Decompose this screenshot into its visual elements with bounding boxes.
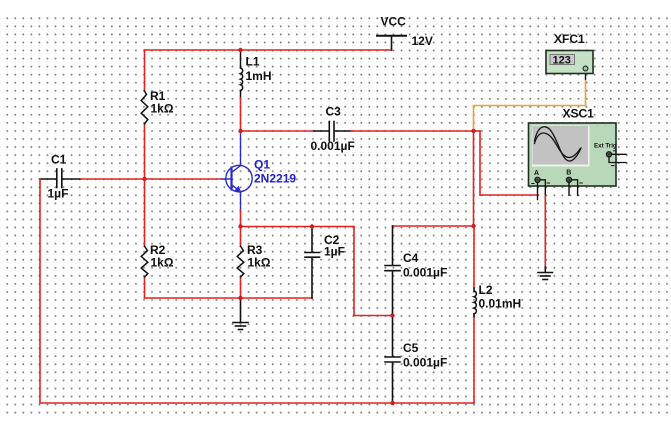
wire C4 top horizontal <box>393 225 475 227</box>
wire R3 column <box>240 227 242 299</box>
VCC power symbol <box>377 36 406 50</box>
svg-text:1kΩ: 1kΩ <box>151 256 174 270</box>
frequency counter XFC1 <box>546 51 593 74</box>
svg-text:Q1: Q1 <box>254 157 270 171</box>
wire base junction to Q1 <box>145 178 223 180</box>
resistor R2 <box>141 246 148 277</box>
svg-text:1kΩ: 1kΩ <box>151 102 174 116</box>
svg-text:L2: L2 <box>479 283 493 297</box>
wire emitter horizontal rail <box>241 227 393 316</box>
svg-text:XSC1: XSC1 <box>563 106 595 120</box>
oscilloscope XSC1 <box>529 123 627 200</box>
wire C1 to base junction <box>81 178 145 180</box>
wire collector junction to scope A <box>474 131 539 195</box>
svg-text:C1: C1 <box>51 152 67 166</box>
wire Q1 emitter down <box>240 210 242 227</box>
capacitor C3 <box>314 122 351 142</box>
svg-text:VCC: VCC <box>381 14 407 28</box>
svg-text:0.001µF: 0.001µF <box>311 139 355 153</box>
wire left loop C1 down and bottom long <box>40 179 474 403</box>
svg-text:B: B <box>566 170 571 177</box>
resistor R1 <box>141 91 148 124</box>
svg-text:12V: 12V <box>412 34 433 48</box>
svg-text:C5: C5 <box>403 341 419 355</box>
wire mid horizontal collector rail <box>241 130 315 132</box>
capacitor C1 <box>40 169 81 188</box>
svg-text:XFC1: XFC1 <box>554 32 585 46</box>
capacitor C2 <box>305 227 320 298</box>
svg-text:C4: C4 <box>403 251 419 265</box>
wire top horizontal VCC rail <box>145 49 392 51</box>
ground (R3 bottom) <box>233 298 248 330</box>
XFC1 terminal stub <box>585 71 587 79</box>
svg-text:123: 123 <box>553 55 571 67</box>
svg-text:A: A <box>534 170 539 177</box>
resistor R3 <box>237 246 244 277</box>
pins <box>537 183 539 200</box>
svg-text:0.01mH: 0.01mH <box>479 296 522 310</box>
wire scope A- to ground <box>544 196 546 267</box>
capacitor C4 <box>385 226 400 315</box>
svg-text:1mH: 1mH <box>246 69 272 83</box>
svg-text:C3: C3 <box>326 105 342 119</box>
svg-text:1µF: 1µF <box>48 186 69 200</box>
svg-text:L1: L1 <box>246 55 260 69</box>
transistor Q1 <box>222 131 252 210</box>
wire bottom-left horizontal (R2/R3/C2 bottom) <box>145 297 313 299</box>
svg-text:Ext Trig: Ext Trig <box>594 143 617 150</box>
svg-text:2N2219: 2N2219 <box>254 172 296 186</box>
Q1 emitter arrow <box>234 186 242 194</box>
wire L1 bottom to collector junction <box>240 98 242 131</box>
inductor L1 <box>241 51 243 98</box>
wire orange to XFC1 <box>474 79 586 131</box>
inductor L2 <box>473 226 475 403</box>
svg-text:0.001µF: 0.001µF <box>403 266 447 280</box>
wire left vertical (R1/R2 column) <box>144 50 146 298</box>
wire C3 to right junction <box>351 130 474 132</box>
svg-text:0.001µF: 0.001µF <box>403 355 447 369</box>
svg-text:1kΩ: 1kΩ <box>248 256 271 270</box>
scope trace <box>535 127 582 161</box>
wire right vertical down to C4/L2 node <box>473 131 475 226</box>
ground (scope) <box>538 267 553 280</box>
capacitor C5 <box>385 316 400 403</box>
svg-text:1µF: 1µF <box>324 244 345 258</box>
